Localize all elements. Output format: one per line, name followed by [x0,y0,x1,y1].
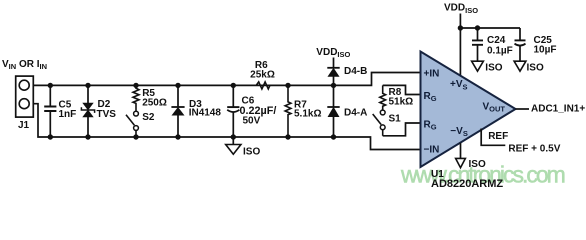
junction node dots VDD line [458,25,481,30]
svg-text:D4-A: D4-A [344,108,367,119]
switch S2 [126,111,138,137]
wire bottom rail from J1 to -IN [29,104,420,150]
svg-text:ISO: ISO [527,62,544,73]
op-amp U1 AD8220ARMZ [421,52,516,168]
svg-text:51kΩ: 51kΩ [389,96,414,107]
diode D3 [171,85,184,137]
svg-text:S1: S1 [389,113,402,124]
ground ISO under C25 [514,61,526,71]
svg-text:25kΩ: 25kΩ [250,70,275,81]
wire VOUT to ADC [516,108,530,110]
diode D4-A [327,85,339,137]
switch S1 [373,110,385,136]
connector J1 [16,76,34,117]
svg-text:IN4148: IN4148 [189,108,222,119]
svg-text:250Ω: 250Ω [142,98,167,109]
svg-text:D4-B: D4-B [344,66,367,77]
wire R8 loop top to upper RG pin [383,85,421,94]
capacitor C24 [472,28,483,61]
resistor R5 [133,85,139,111]
svg-text:AD8220ARMZ: AD8220ARMZ [431,178,503,190]
svg-text:S2: S2 [142,112,155,123]
svg-text:J1: J1 [18,120,30,131]
resistor R8 [380,85,386,110]
resistor R7 [285,85,291,137]
resistor R6 [256,82,270,89]
ground ISO under -VS [456,158,466,167]
svg-text:50V: 50V [243,116,261,127]
svg-text:REF: REF [488,131,508,142]
junction node dots bottom rail [48,134,337,139]
svg-text:ISO: ISO [485,62,502,73]
svg-text:REF + 0.5V: REF + 0.5V [508,143,560,154]
svg-text:5.1kΩ: 5.1kΩ [294,108,321,119]
capacitor C25 [515,28,526,61]
svg-text:TVS: TVS [97,109,117,120]
wire -VS to ground [460,143,462,159]
ground ISO under C24 [472,61,484,71]
wire REF pin out [481,129,505,146]
wire S1 loop bottom to lower RG pin [383,123,421,136]
TVS diode D2 [81,85,94,137]
svg-text:1nF: 1nF [59,109,77,120]
capacitor C6 [227,85,239,137]
svg-text:ISO: ISO [469,159,486,170]
svg-text:10µF: 10µF [534,45,557,56]
wire VDD_ISO to +VS and caps [460,14,520,77]
svg-text:−IN: −IN [424,145,440,156]
svg-text:+IN: +IN [424,68,440,79]
svg-text:0.1µF: 0.1µF [487,45,513,56]
capacitor C5 [44,85,56,137]
diode D4-B [327,58,339,86]
ground ISO under C6 [226,137,241,154]
svg-text:ISO: ISO [243,146,260,157]
wire top rail from J1 to +IN [29,73,420,86]
svg-text:ADC1_IN1+: ADC1_IN1+ [531,104,585,115]
junction node dots top rail [48,83,337,88]
